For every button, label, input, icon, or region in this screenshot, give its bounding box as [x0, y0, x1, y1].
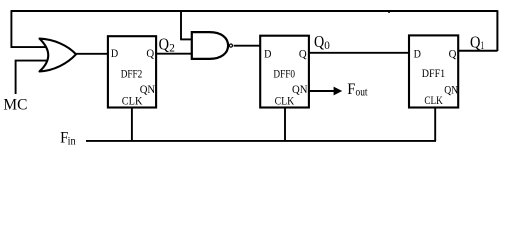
wire: DFF0 CLK stub [284, 108, 286, 142]
pin label Q of DFF0 [299, 49, 307, 61]
svg-text:DFF0: DFF0 [273, 66, 295, 80]
svg-text:DFF2: DFF2 [121, 66, 143, 80]
wire: top feedback net from Q1 to OR gate and NAND gate [11, 10, 498, 12]
pin label D of DFF2 [111, 48, 118, 60]
pin label CLK of DFF0 [275, 93, 295, 107]
svg-text:Q: Q [449, 49, 457, 61]
svg-text:0: 0 [324, 40, 330, 52]
wire: NAND top input horizontal [180, 38, 193, 40]
pin label D of DFF1 [414, 49, 421, 61]
svg-text:MC: MC [3, 96, 27, 113]
OR gate U1 [40, 39, 77, 72]
pin label QN of DFF2 [140, 82, 156, 96]
label DFF2 [121, 66, 143, 80]
node Q1 label [470, 33, 484, 53]
wire: OR gate top input horizontal [11, 46, 49, 48]
pin label QN of DFF1 [444, 83, 458, 97]
wire: Q2 from DFF2 Q output to NAND bottom input [156, 53, 192, 55]
wire: NAND output to DFF0 D input [234, 45, 260, 47]
junction tick on top net [388, 11, 390, 14]
node Q2 label [159, 35, 176, 55]
wire: OR gate output to DFF2 D input [76, 53, 109, 55]
label DFF0 [273, 66, 295, 80]
label MC [3, 96, 27, 113]
svg-text:Q: Q [470, 33, 480, 52]
pin label D of DFF0 [264, 49, 271, 61]
pin label QN of DFF0 [292, 82, 308, 96]
svg-text:CLK: CLK [424, 93, 443, 107]
svg-text:Q: Q [314, 32, 324, 51]
arrow: F_out from DFF0 QN output [310, 87, 343, 96]
svg-text:Q: Q [299, 49, 307, 61]
svg-text:D: D [414, 49, 421, 61]
svg-text:QN: QN [292, 82, 308, 96]
D flip-flop DFF1 box [409, 35, 458, 107]
svg-text:CLK: CLK [122, 93, 143, 107]
wire: left vertical drop from top net to OR gate top input [10, 10, 12, 47]
node Q0 label [314, 32, 330, 52]
wire: vertical drop from top net to NAND top input [180, 11, 182, 40]
label F_in [60, 129, 76, 147]
svg-text:QN: QN [444, 83, 458, 97]
wire: OR gate bottom input horizontal from MC [15, 60, 50, 62]
svg-text:DFF1: DFF1 [422, 66, 445, 80]
NAND gate U2 output inversion bubble [229, 44, 232, 47]
D flip-flop DFF2 box [108, 36, 156, 107]
wire: DFF1 CLK stub [434, 108, 436, 142]
wire: F_in clock distribution line [86, 140, 436, 142]
wire: DFF2 CLK stub [131, 108, 133, 142]
wire: right vertical riser from Q1 to top net [496, 10, 498, 51]
label F_out [347, 81, 368, 99]
pin label Q of DFF2 [146, 48, 154, 60]
pin label CLK of DFF1 [424, 93, 443, 107]
wire: Q1 from DFF1 Q output to right feedback riser [458, 50, 498, 52]
svg-text:D: D [264, 49, 271, 61]
pin label Q of DFF1 [449, 49, 457, 61]
svg-text:Q: Q [159, 35, 169, 54]
D flip-flop DFF0 box [260, 36, 309, 108]
label DFF1 [422, 66, 445, 80]
svg-text:Q: Q [146, 48, 154, 60]
pin label CLK of DFF2 [122, 93, 143, 107]
svg-text:out: out [356, 87, 369, 99]
NAND gate U2 body [192, 32, 228, 59]
svg-text:in: in [68, 135, 76, 147]
wire: MC input vertical stub [15, 61, 17, 94]
svg-text:CLK: CLK [275, 93, 295, 107]
svg-text:F: F [347, 81, 355, 98]
wire: Q0 from DFF0 Q output to DFF1 D input [309, 52, 409, 54]
svg-text:D: D [111, 48, 118, 60]
